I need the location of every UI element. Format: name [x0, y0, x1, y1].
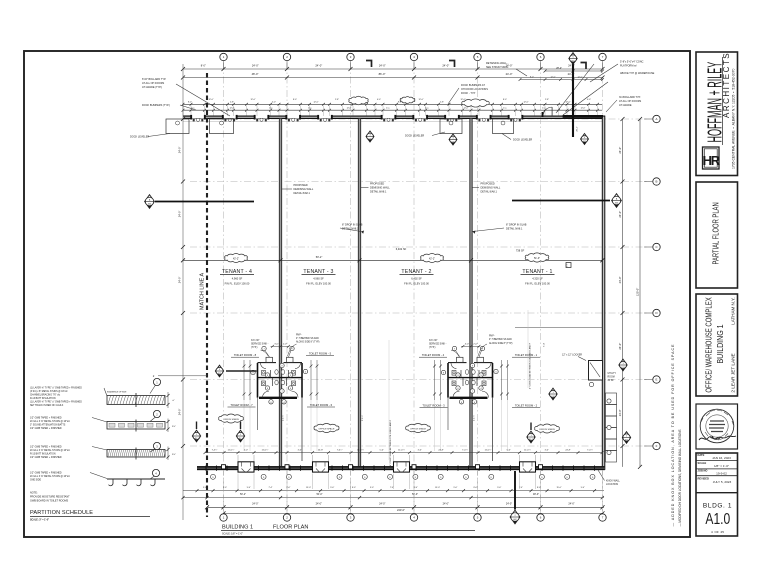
- warehouse man-door top right: [543, 107, 552, 116]
- svg-text:3'-0": 3'-0": [545, 449, 549, 451]
- svg-text:JAN 16, 2023: JAN 16, 2023: [712, 456, 731, 460]
- svg-text:48'-0": 48'-0": [252, 72, 259, 76]
- svg-text:3/4 BOLLARD TYP.: 3/4 BOLLARD TYP.: [619, 96, 641, 99]
- svg-text:28'-4": 28'-4": [576, 126, 578, 132]
- section line right: [512, 200, 610, 202]
- svg-text:OFFICE SPACE: OFFICE SPACE: [410, 427, 426, 430]
- svg-text:4,320 SF: 4,320 SF: [532, 277, 543, 281]
- section cut top: [572, 64, 574, 137]
- svg-text:m.o.: m.o.: [386, 108, 390, 110]
- svg-text:4" H BEHIND SS AND: 4" H BEHIND SS AND: [489, 338, 512, 341]
- svg-text:SET TRACK IN BED OF CAULK: SET TRACK IN BED OF CAULK: [30, 404, 64, 407]
- svg-text:8" DROP IN SLAB: 8" DROP IN SLAB: [342, 224, 363, 227]
- bottom overall dimension: [224, 512, 603, 514]
- svg-text:TOILET ROOM - 4: TOILET ROOM - 4: [422, 353, 445, 357]
- svg-text:DETAIL 9/A8.1: DETAIL 9/A8.1: [506, 228, 523, 231]
- svg-text:7'-4¾": 7'-4¾": [212, 448, 218, 451]
- svg-text:C: C: [566, 263, 568, 267]
- leaders to platform: [556, 64, 594, 113]
- demising wall 1: [279, 118, 281, 467]
- svg-text:8'-0": 8'-0": [503, 99, 507, 101]
- svg-text:1/2" GWB TAPED + FINISHED: 1/2" GWB TAPED + FINISHED: [30, 427, 62, 430]
- grid bubble 6 top: [537, 53, 544, 60]
- svg-text:PARTIAL FLOOR PLAN: PARTIAL FLOOR PLAN: [713, 202, 721, 264]
- svg-text:7'-4": 7'-4": [544, 343, 546, 348]
- svg-text:AT ALL OH DOORS: AT ALL OH DOORS: [619, 100, 642, 103]
- svg-text:DETAIL 8/A8.1: DETAIL 8/A8.1: [481, 191, 498, 194]
- office front dimension string: [205, 452, 602, 454]
- partition type 1 bar: [107, 396, 165, 405]
- office space cloud at 547: [535, 424, 560, 433]
- svg-text:8'-0": 8'-0": [293, 99, 297, 101]
- svg-text:1/2" GWB TAPED + FINISHED: 1/2" GWB TAPED + FINISHED: [30, 417, 62, 420]
- svg-text:11'-0¾": 11'-0¾": [262, 448, 269, 451]
- utility room: [589, 361, 603, 381]
- svg-text:4" H BEHIND SS AND: 4" H BEHIND SS AND: [296, 337, 319, 340]
- grid bubble 5 bottom: [474, 514, 481, 521]
- svg-text:12'-0": 12'-0": [464, 108, 469, 110]
- svg-text:DEMISING WALL: DEMISING WALL: [370, 187, 390, 190]
- svg-text:OFFICE SPACE: OFFICE SPACE: [539, 428, 555, 431]
- sheet border frame: [24, 51, 690, 537]
- entry vestibule at 320.5: [313, 462, 329, 472]
- svg-text:CHANNEL BRACING 7'6" o/c: CHANNEL BRACING 7'6" o/c: [30, 394, 61, 397]
- svg-text:ABOVE TYP @ WAREHOUSE: ABOVE TYP @ WAREHOUSE: [620, 72, 655, 75]
- svg-text:9'-0": 9'-0": [454, 487, 458, 489]
- grid bubble 1 bottom: [220, 514, 227, 521]
- svg-text:2'-0": 2'-0": [473, 343, 477, 345]
- svg-text:OFFICE SPACE: OFFICE SPACE: [319, 427, 335, 430]
- svg-text:8'-0": 8'-0": [414, 487, 418, 489]
- svg-text:50'-0": 50'-0": [316, 493, 322, 496]
- svg-text:12'-0": 12'-0": [250, 99, 255, 101]
- svg-text:20 GA x 3 ⅜" METAL STUDS @ 16": 20 GA x 3 ⅜" METAL STUDS @ 16"o/c: [30, 449, 71, 452]
- svg-text:24'-8": 24'-8": [318, 449, 324, 451]
- svg-text:PNP -: PNP -: [296, 335, 302, 337]
- svg-text:7'-4¾": 7'-4¾": [462, 448, 468, 451]
- svg-text:6,402 SF: 6,402 SF: [396, 247, 407, 251]
- svg-text:3'-0": 3'-0": [418, 449, 422, 451]
- svg-text:R-13 BATT INSULATION: R-13 BATT INSULATION: [30, 453, 56, 456]
- demising wall 3: [470, 118, 472, 467]
- grid bubble 2 bottom: [283, 514, 290, 521]
- svg-text:TOILET ROOM - 2: TOILET ROOM - 2: [515, 403, 538, 407]
- svg-text:ONE SIDE: ONE SIDE: [30, 480, 41, 482]
- lockers along right wall: [606, 393, 617, 405]
- svg-text:3'-0": 3'-0": [298, 449, 302, 451]
- grid bubble 4 bottom: [410, 514, 417, 521]
- svg-text:6,402 SF: 6,402 SF: [411, 277, 422, 281]
- svg-text:DETAIL 8/A8.1: DETAIL 8/A8.1: [370, 191, 387, 194]
- svg-text:12'-0": 12'-0": [550, 76, 555, 78]
- svg-text:C: C: [655, 245, 657, 249]
- svg-text:m.o.: m.o.: [503, 108, 507, 110]
- svg-text:8'-0": 8'-0": [188, 101, 192, 103]
- column grid lines: [224, 63, 603, 511]
- bottom dimension line 2: [183, 497, 604, 499]
- grid bubble 3 top: [347, 53, 354, 60]
- partition type 3 bar: [107, 450, 165, 458]
- svg-text:LATHAM N.Y.: LATHAM N.Y.: [731, 297, 736, 324]
- grid bubble 7 top: [599, 53, 606, 60]
- svg-text:JOB NO: JOB NO: [698, 468, 708, 472]
- svg-text:20 GA x 3 ⅜" METAL STUDS @ 16": 20 GA x 3 ⅜" METAL STUDS @ 16"o/c: [30, 475, 71, 478]
- svg-text:2'-8": 2'-8": [335, 99, 339, 101]
- svg-text:F: F: [656, 444, 658, 448]
- svg-text:24'-0": 24'-0": [443, 503, 449, 506]
- bottom exterior wall: [197, 466, 238, 470]
- svg-text:DOCK - TYP: DOCK - TYP: [461, 92, 476, 95]
- svg-text:DOCK BUMPERS AT: DOCK BUMPERS AT: [461, 84, 485, 87]
- svg-text:TOILET ROOM - 1: TOILET ROOM - 1: [515, 353, 538, 357]
- svg-text:24'-0": 24'-0": [252, 503, 258, 506]
- svg-text:4,960 SF: 4,960 SF: [313, 277, 324, 281]
- svg-text:7'-4": 7'-4": [269, 487, 273, 489]
- svg-text:11'-0¾": 11'-0¾": [485, 448, 492, 451]
- svg-text:FIN FL. ELEV 100.00: FIN FL. ELEV 100.00: [525, 282, 550, 286]
- svg-text:15'-0": 15'-0": [306, 487, 311, 489]
- svg-text:SCALE: 1/8" = 1'-0": SCALE: 1/8" = 1'-0": [222, 533, 243, 536]
- toilet cluster B: [433, 343, 509, 461]
- svg-text:1/2" GWB TAPED + FINISHED: 1/2" GWB TAPED + FINISHED: [30, 472, 62, 475]
- svg-text:7'-4¾": 7'-4¾": [337, 448, 343, 451]
- svg-text:RETAINING WALL -: RETAINING WALL -: [486, 62, 508, 65]
- svg-text:5'-8"x 5'-0"x4" CONC: 5'-8"x 5'-0"x4" CONC: [620, 61, 644, 64]
- svg-text:2'-1¾": 2'-1¾": [361, 415, 364, 421]
- svg-text:8'-0": 8'-0": [530, 76, 534, 78]
- svg-text:FIN FL. ELEV 100.00: FIN FL. ELEV 100.00: [306, 282, 331, 286]
- bottom dimension line 1: [183, 490, 604, 492]
- svg-text:12'-0": 12'-0": [347, 108, 352, 110]
- svg-text:TENANT - 1: TENANT - 1: [522, 269, 552, 275]
- svg-text:DOCK BUMPERS (TYP.): DOCK BUMPERS (TYP.): [142, 104, 170, 107]
- svg-text:24'-0": 24'-0": [618, 343, 622, 350]
- entry vestibule at 527.5: [520, 462, 536, 472]
- svg-text:5'-0": 5'-0": [507, 449, 511, 451]
- svg-text:2'-8": 2'-8": [440, 101, 444, 103]
- signature: [699, 436, 736, 440]
- svg-text:42'-2": 42'-2": [233, 258, 239, 261]
- svg-text:4'-0": 4'-0": [272, 101, 276, 103]
- extra top-right dims: [545, 70, 603, 72]
- svg-text:738 SF: 738 SF: [516, 249, 525, 253]
- svg-text:15'-0": 15'-0": [556, 487, 561, 489]
- svg-text:4,960 SF: 4,960 SF: [232, 277, 243, 281]
- conc slab leader lines: [388, 340, 390, 460]
- svg-text:JULY 5, 2023: JULY 5, 2023: [713, 480, 732, 484]
- svg-text:TOILET ROOM - 6: TOILET ROOM - 6: [310, 403, 333, 407]
- svg-text:PROPOSED: PROPOSED: [481, 183, 495, 186]
- svg-text:1735 CENTRAL AVENUE • ALBANY: 1735 CENTRAL AVENUE • ALBANY N.Y. 12205 …: [732, 68, 736, 169]
- grid bubble D right: [653, 309, 660, 316]
- svg-text:(TYP.): (TYP.): [251, 347, 258, 349]
- svg-text:42'-2": 42'-2": [429, 258, 435, 261]
- svg-text:4" CONC SLAB BETWEEN COL LINE: 4" CONC SLAB BETWEEN COL LINE E AND F: [529, 342, 532, 389]
- svg-text:24'-0": 24'-0": [618, 147, 622, 154]
- svg-text:DOCK LEVELER: DOCK LEVELER: [130, 136, 149, 139]
- grid bubble C right: [653, 243, 660, 250]
- svg-text:12'-0": 12'-0": [581, 108, 586, 110]
- svg-text:24'-0": 24'-0": [618, 409, 622, 416]
- svg-text:SERVICE SINK -: SERVICE SINK -: [251, 344, 269, 346]
- svg-text:D: D: [655, 311, 657, 315]
- svg-text:HR: HR: [703, 153, 721, 168]
- office space cloud at 418: [406, 424, 431, 433]
- office space cloud at 231: [219, 414, 244, 423]
- grid bubble A right: [653, 115, 660, 122]
- svg-text:20 GA x 3 ⅜" METAL STUDS @ 16": 20 GA x 3 ⅜" METAL STUDS @ 16"o/c: [30, 420, 71, 423]
- svg-text:⅝": ⅝": [172, 399, 175, 402]
- grid bubble 3 bottom: [347, 514, 354, 521]
- svg-text:m.o.: m.o.: [425, 108, 429, 110]
- svg-text:24'-0": 24'-0": [618, 211, 622, 218]
- svg-text:12" x 12" LOCKER: 12" x 12" LOCKER: [562, 354, 582, 357]
- svg-text:24'-0": 24'-0": [178, 211, 182, 218]
- office space cloud at 326.5: [314, 424, 339, 433]
- svg-text:— ADDED KNOX BOX LOCATION, AR: — ADDED KNOX BOX LOCATION, AREA TO BE US…: [671, 344, 675, 527]
- svg-text:— MODIFIED OH DOOR LOCATIONS,: — MODIFIED OH DOOR LOCATIONS, DEMISING W…: [678, 429, 682, 527]
- svg-text:24'-0": 24'-0": [178, 277, 182, 284]
- svg-text:24'-0": 24'-0": [315, 64, 322, 68]
- svg-text:DEMISING WALL: DEMISING WALL: [481, 187, 501, 190]
- left extension line: [182, 64, 184, 520]
- svg-text:24'-8": 24'-8": [438, 449, 444, 451]
- svg-text:FLOOR PLAN: FLOOR PLAN: [273, 524, 308, 530]
- svg-text:PLATFORM w/: PLATFORM w/: [620, 65, 637, 68]
- title block: issue box: [696, 453, 738, 536]
- section line left: [155, 201, 254, 203]
- svg-text:11'-0¾": 11'-0¾": [357, 448, 364, 451]
- svg-text:GWB BOARD IN TOILET ROOMS: GWB BOARD IN TOILET ROOMS: [30, 500, 69, 503]
- svg-text:9'-0": 9'-0": [370, 487, 374, 489]
- svg-text:PARTITION SCHEDULE: PARTITION SCHEDULE: [30, 510, 93, 516]
- svg-text:DETAIL 8/A8.1: DETAIL 8/A8.1: [294, 192, 311, 195]
- thick dock face wall: [563, 115, 603, 118]
- svg-text:12'-0": 12'-0": [208, 99, 213, 101]
- svg-text:2'-0": 2'-0": [283, 343, 287, 345]
- svg-text:IN ABSENCE OF SIDE: IN ABSENCE OF SIDE: [107, 391, 127, 394]
- HR logo: [703, 147, 720, 169]
- svg-text:(1) LAYER ⅝" TYPE "u" GWB TAPE: (1) LAYER ⅝" TYPE "u" GWB TAPED + FINISH…: [30, 401, 82, 404]
- svg-text:15'-0": 15'-0": [435, 487, 440, 489]
- door dimension band: [183, 103, 602, 105]
- svg-text:5'-0": 5'-0": [244, 449, 248, 451]
- row grid lines: [190, 119, 648, 446]
- svg-text:B: B: [656, 180, 658, 184]
- svg-text:(1) LAYER ⅝" TYPE "u" GWB TAPE: (1) LAYER ⅝" TYPE "u" GWB TAPED + FINISH…: [30, 387, 82, 390]
- svg-text:12'-0": 12'-0": [565, 101, 570, 103]
- dock leveler at 492.5: [493, 119, 514, 134]
- svg-text:30 SF: 30 SF: [608, 380, 615, 382]
- svg-text:3⅜": 3⅜": [172, 454, 176, 456]
- entry vestibule at 401.5: [394, 462, 410, 472]
- entry vestibule at 246: [238, 462, 254, 472]
- right exterior wall: [602, 116, 605, 469]
- grid bubble 5 top: [474, 53, 481, 60]
- top exterior wall: [183, 121, 602, 123]
- svg-text:50'-2": 50'-2": [240, 493, 246, 496]
- svg-text:AT ALL OH DOORS: AT ALL OH DOORS: [142, 82, 165, 85]
- svg-text:19-9-02: 19-9-02: [716, 471, 727, 475]
- svg-text:SEE STRUCTURAL: SEE STRUCTURAL: [486, 66, 509, 69]
- svg-text:12'-0": 12'-0": [577, 76, 582, 78]
- svg-text:51'-0": 51'-0": [534, 257, 540, 260]
- svg-text:BUILDING 1: BUILDING 1: [716, 324, 726, 363]
- svg-text:DEMISING WALL: DEMISING WALL: [294, 188, 314, 191]
- svg-text:24'-0": 24'-0": [252, 64, 259, 68]
- svg-text:24'-0": 24'-0": [618, 277, 622, 284]
- svg-text:PNP -: PNP -: [489, 336, 495, 338]
- grid bubble E right: [653, 376, 660, 383]
- svg-text:SERVICE SINK -: SERVICE SINK -: [429, 344, 447, 346]
- svg-text:PROVIDE MOISTURE RESISTANT: PROVIDE MOISTURE RESISTANT: [30, 496, 70, 499]
- svg-text:A1.0: A1.0: [705, 510, 730, 528]
- dock leveler at 166: [166, 119, 189, 134]
- svg-text:AT GRADE (TYP.): AT GRADE (TYP.): [142, 86, 162, 89]
- svg-text:(TYP.): (TYP.): [429, 347, 436, 349]
- svg-text:OFFICE SPACE: OFFICE SPACE: [223, 418, 239, 421]
- svg-text:DOCK LEVELER: DOCK LEVELER: [405, 135, 424, 138]
- svg-text:TENANT - 3: TENANT - 3: [303, 269, 333, 275]
- svg-text:REVISED: REVISED: [698, 476, 710, 480]
- svg-text:ALONG SIDE 8" (TYP): ALONG SIDE 8" (TYP): [296, 341, 320, 344]
- svg-text:1/2" GWB TAPED + FINISHED: 1/2" GWB TAPED + FINISHED: [30, 446, 62, 449]
- svg-text:7'-4¾": 7'-4¾": [587, 448, 593, 451]
- svg-text:12'-0": 12'-0": [313, 101, 318, 103]
- svg-text:50'-0": 50'-0": [412, 493, 418, 496]
- svg-text:OFFICE/ WAREHOUSE COMPLEX: OFFICE/ WAREHOUSE COMPLEX: [706, 297, 714, 393]
- svg-text:9'-0": 9'-0": [247, 487, 251, 489]
- svg-text:PROPOSED: PROPOSED: [294, 184, 308, 187]
- svg-text:TENANT - 2: TENANT - 2: [401, 269, 431, 275]
- svg-text:2'-1¾": 2'-1¾": [282, 415, 285, 421]
- svg-text:DOCK LEVELER: DOCK LEVELER: [513, 139, 532, 142]
- svg-text:24'-0": 24'-0": [178, 147, 182, 154]
- revision clouds at top wall: [349, 96, 368, 104]
- dock leveler at 440: [440, 119, 462, 134]
- svg-text:8'-0": 8'-0": [201, 65, 206, 68]
- svg-text:MATCH LINE A: MATCH LINE A: [200, 273, 206, 310]
- svg-text:8" DROP IN SLAB: 8" DROP IN SLAB: [506, 224, 527, 227]
- svg-text:1/8" = 1'-0": 1/8" = 1'-0": [714, 464, 729, 468]
- svg-text:9'-0": 9'-0": [581, 487, 585, 489]
- top dimension line 2: [183, 77, 603, 79]
- svg-text:2 LEAR JET LANE: 2 LEAR JET LANE: [731, 353, 736, 392]
- grid bubble F right: [653, 442, 660, 449]
- grid bubble 1 top: [220, 53, 227, 60]
- svg-text:5'-0": 5'-0": [380, 449, 384, 451]
- svg-text:9'-0": 9'-0": [203, 487, 207, 489]
- svg-text:FIN FL. ELEV 100.00: FIN FL. ELEV 100.00: [404, 282, 429, 286]
- svg-text:24'-0": 24'-0": [506, 72, 513, 76]
- svg-text:4" CONC SLAB BETWEEN COL LINE: 4" CONC SLAB BETWEEN COL LINE E AND F: [389, 419, 392, 466]
- svg-text:24'-8": 24'-8": [565, 449, 571, 451]
- grid bubble B right: [653, 178, 660, 185]
- svg-text:6"x6" BOLLARD TYP.: 6"x6" BOLLARD TYP.: [142, 78, 166, 81]
- svg-text:1/2" GWB TAPED + FINISHED: 1/2" GWB TAPED + FINISHED: [30, 456, 62, 459]
- grid bubble 6 bottom: [537, 514, 544, 521]
- svg-text:(3 SU) x 8" METAL STUDS @ 16"o: (3 SU) x 8" METAL STUDS @ 16"o/c: [30, 390, 69, 393]
- match line: [206, 73, 208, 517]
- svg-text:UTILITY: UTILITY: [608, 373, 617, 375]
- svg-text:ROOM: ROOM: [608, 376, 615, 378]
- svg-text:SCALE: SCALE: [698, 461, 707, 465]
- demising wall 2: [358, 118, 360, 467]
- svg-text:24'-0": 24'-0": [442, 64, 449, 68]
- svg-text:9'-0": 9'-0": [330, 487, 334, 489]
- svg-text:24'-0": 24'-0": [379, 503, 385, 506]
- grid bubble 2 top: [283, 53, 290, 60]
- svg-text:TOILET ROOM - 5: TOILET ROOM - 5: [309, 352, 332, 356]
- svg-text:E: E: [656, 378, 658, 382]
- toilet cluster A: [243, 343, 319, 461]
- svg-text:11'-0¾": 11'-0¾": [228, 448, 235, 451]
- svg-text:TENANT - 4: TENANT - 4: [222, 269, 252, 275]
- svg-text:11'-0¾": 11'-0¾": [524, 448, 531, 451]
- svg-text:24'-0": 24'-0": [178, 409, 182, 416]
- title block: project box: [696, 294, 738, 396]
- svg-text:TOILET ROOM - 3: TOILET ROOM - 3: [422, 403, 445, 407]
- window tag circles: [211, 474, 216, 479]
- top dimension line 1: [183, 68, 603, 70]
- svg-text:2'-1¾": 2'-1¾": [473, 415, 476, 421]
- svg-text:m.o.: m.o.: [308, 108, 312, 110]
- svg-text:28'-4": 28'-4": [556, 68, 562, 70]
- svg-text:48'-0": 48'-0": [533, 493, 539, 496]
- svg-text:24'-0": 24'-0": [568, 503, 574, 506]
- svg-text:R-13 BATT INSULATION: R-13 BATT INSULATION: [30, 397, 56, 400]
- svg-text:12'-0": 12'-0": [523, 101, 528, 103]
- svg-text:120'-0": 120'-0": [635, 288, 639, 296]
- right dimension lines: [622, 119, 624, 467]
- title block: seal box: [696, 404, 738, 449]
- svg-text:TOILET ROOM - 8: TOILET ROOM - 8: [234, 353, 257, 357]
- svg-text:DATE: DATE: [698, 453, 705, 457]
- svg-text:BUILDING 1: BUILDING 1: [222, 524, 253, 530]
- svg-text:m.o.: m.o.: [269, 108, 273, 110]
- svg-text:9'-0": 9'-0": [497, 487, 501, 489]
- svg-text:BLDG. 1: BLDG. 1: [703, 503, 732, 510]
- svg-text:SCALE: 3" = 1'-0": SCALE: 3" = 1'-0": [30, 519, 49, 522]
- svg-text:m.o.: m.o.: [542, 108, 546, 110]
- svg-text:12'-0": 12'-0": [230, 108, 235, 110]
- grid bubble 4 top: [410, 53, 417, 60]
- partition type 2 bar: [107, 422, 165, 430]
- svg-text:3⅜": 3⅜": [172, 426, 176, 428]
- revision delta top right: [581, 63, 587, 70]
- svg-text:24'-0": 24'-0": [316, 503, 322, 506]
- svg-text:2'-8": 2'-8": [230, 101, 234, 103]
- grid bubble 7 bottom: [599, 514, 606, 521]
- svg-text:4'-0": 4'-0": [377, 99, 381, 101]
- svg-text:ALONG SIDE 8" (TYP): ALONG SIDE 8" (TYP): [489, 342, 513, 345]
- svg-text:4'-0": 4'-0": [587, 99, 591, 101]
- title block: architect box: [696, 52, 738, 176]
- svg-text:A: A: [656, 117, 658, 121]
- svg-text:3'-0": 3'-0": [274, 343, 278, 345]
- svg-text:12'-0": 12'-0": [418, 99, 423, 101]
- svg-text:LOCATION: LOCATION: [606, 483, 618, 486]
- svg-text:11'-0¾": 11'-0¾": [398, 448, 405, 451]
- svg-text:OH DOOR LOCATIONS: OH DOOR LOCATIONS: [461, 88, 488, 91]
- bottom dimension line 3: [207, 506, 604, 508]
- svg-text:50'-2": 50'-2": [316, 255, 323, 259]
- svg-text:ARCHITECTS: ARCHITECTS: [722, 52, 731, 118]
- interior dimension line: [183, 259, 602, 261]
- svg-text:24'-0": 24'-0": [379, 64, 386, 68]
- svg-text:TOILET ROOM - 7: TOILET ROOM - 7: [230, 403, 253, 407]
- svg-text:3'-0": 3'-0": [465, 343, 469, 345]
